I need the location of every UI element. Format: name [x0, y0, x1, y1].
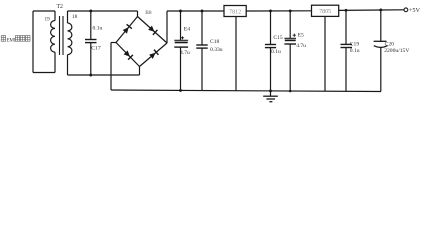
node C18 top [201, 10, 204, 13]
svg-text:C15: C15 [273, 35, 283, 41]
node E5 bottom [289, 90, 292, 93]
svg-text:E5: E5 [298, 32, 304, 38]
text note 接EMI滤波输出 [1, 36, 30, 44]
wire 7805 out rail [339, 9, 405, 12]
node C17 top [89, 10, 92, 13]
pin label 18 [72, 14, 78, 20]
bridge label B8 [145, 10, 152, 16]
label E4 value [180, 50, 190, 56]
label C20 value [384, 48, 409, 54]
transformer T2 secondary winding [68, 11, 72, 75]
wire input loop left [33, 11, 55, 73]
wire 7805 gnd pin [324, 16, 326, 91]
node E4 bottom [179, 89, 182, 92]
polarity plus E4 [181, 36, 184, 39]
label E4 [184, 27, 190, 33]
diode bridge bottom-right [149, 50, 158, 59]
node C19 top [345, 9, 348, 12]
ground [263, 91, 278, 102]
svg-text:E4: E4 [184, 27, 190, 33]
label C17 value [93, 26, 103, 32]
label E5 [298, 32, 304, 38]
capacitor C20 [374, 10, 388, 92]
svg-text:7812: 7812 [229, 9, 241, 15]
node C15 top [269, 9, 272, 12]
regulator U 7812 [224, 6, 246, 17]
regulator U 7805 [312, 5, 339, 16]
node C15 ground [269, 89, 272, 92]
label E5 value [296, 43, 306, 49]
node C20 top [379, 9, 382, 12]
svg-text:0.1u: 0.1u [271, 49, 281, 55]
svg-text:0.33u: 0.33u [210, 47, 223, 53]
capacitor E4 [174, 11, 188, 90]
capacitor C19 [341, 10, 353, 91]
capacitor C15 [265, 11, 276, 91]
capacitor C18 [196, 11, 207, 91]
bridge B8 frame [116, 17, 167, 67]
capacitor C17 [85, 11, 97, 75]
label C19 value [350, 48, 360, 54]
wire ground rail [111, 90, 381, 92]
svg-text:C17: C17 [91, 46, 101, 52]
diode bridge top-left [123, 24, 132, 33]
svg-text:C18: C18 [210, 39, 220, 45]
wire bridge plus up [166, 11, 168, 43]
svg-text:18: 18 [72, 14, 78, 20]
label C15 value [271, 49, 281, 55]
wire 7812 gnd pin [235, 17, 237, 91]
wire secondary top to bridge [68, 11, 138, 17]
polarity plus E5 [293, 34, 296, 37]
terminal +5V [404, 7, 420, 14]
transformer T2 primary winding [51, 11, 55, 73]
label C20 [385, 42, 395, 48]
transformer T2 label [57, 4, 64, 10]
label C18 [210, 39, 220, 45]
wire secondary bottom rail [68, 66, 140, 75]
svg-text:2200u/15V: 2200u/15V [384, 48, 409, 54]
svg-text:C20: C20 [385, 42, 395, 48]
svg-text:7805: 7805 [319, 9, 331, 15]
pin label 19 [45, 17, 51, 23]
wire dc rail to 7812 [167, 10, 224, 12]
capacitor E5 [284, 11, 296, 91]
diode bridge bottom-left [124, 50, 133, 59]
diode bridge top-right [148, 26, 157, 35]
svg-text:19: 19 [45, 17, 51, 23]
transformer T2 core [60, 16, 64, 55]
node E5 top [289, 9, 292, 12]
svg-text:+5V: +5V [409, 7, 421, 14]
label C19 [350, 41, 360, 47]
node E4 top [179, 10, 182, 13]
svg-text:0.1u: 0.1u [350, 48, 360, 54]
wire 7812 out rail [246, 10, 311, 12]
svg-text:T2: T2 [57, 4, 64, 10]
label C15 [273, 35, 283, 41]
svg-text:4.7u: 4.7u [296, 43, 306, 49]
svg-text:C19: C19 [350, 41, 360, 47]
svg-text:4.7u: 4.7u [180, 50, 190, 56]
svg-text:B8: B8 [145, 10, 152, 16]
svg-text:EMI: EMI [7, 38, 17, 43]
wire bridge minus to ground [111, 43, 116, 91]
node C17 bottom [89, 74, 92, 77]
svg-text:0.1u: 0.1u [93, 26, 103, 32]
label C18 value [210, 47, 223, 53]
label C17 [91, 46, 101, 52]
